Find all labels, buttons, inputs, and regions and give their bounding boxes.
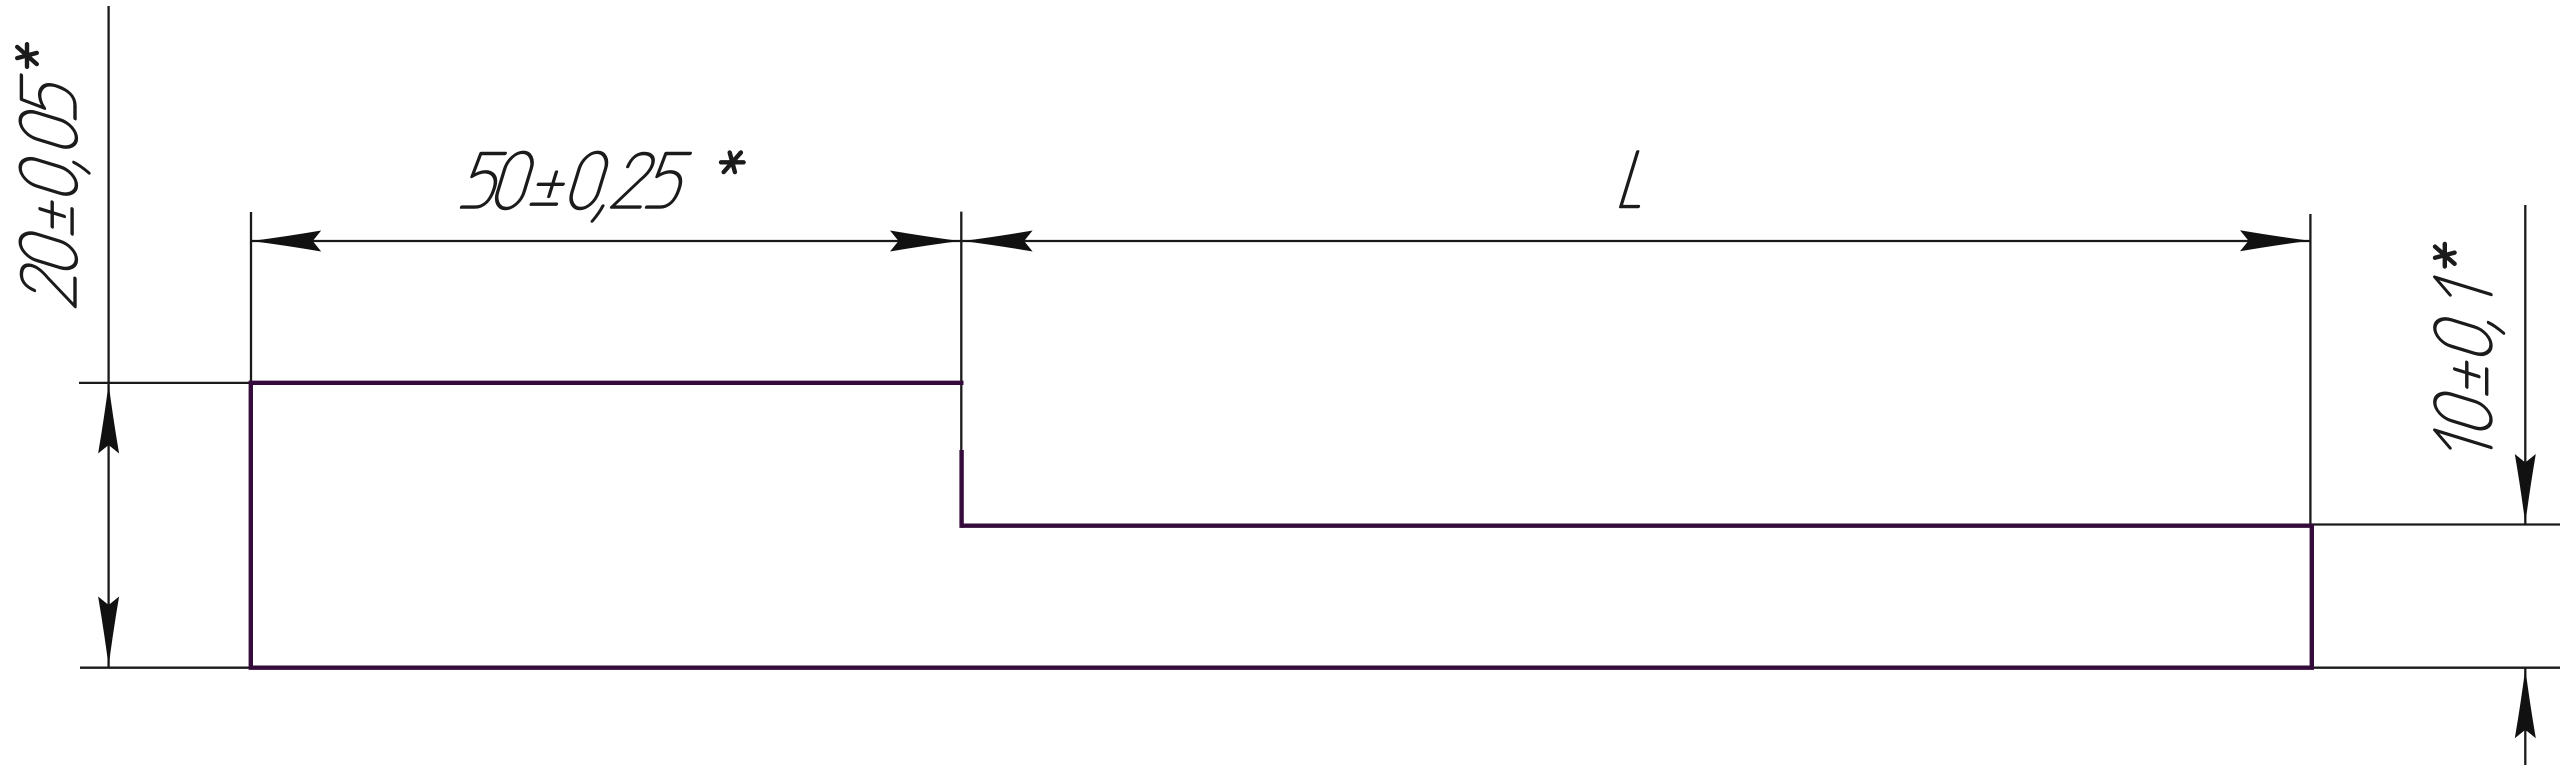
dimension line 10+-0,1 upper segment bbox=[2524, 205, 2526, 524]
arrowhead up at 10-dim bottom bbox=[2515, 668, 2536, 738]
arrowhead up at 20-dim top bbox=[98, 384, 119, 454]
extension line at step x=961 bbox=[960, 212, 962, 453]
dimension line 50 and L horizontal bbox=[251, 240, 2310, 242]
extension line 50-dim left (part top-left corner up) bbox=[250, 212, 252, 383]
text 20+-0,05* (left dimension label, rotated) bbox=[17, 44, 89, 311]
arrowhead down at 20-dim bottom bbox=[98, 597, 119, 667]
text L (dimension label) bbox=[1621, 152, 1655, 207]
part outline (stepped bar profile) bbox=[251, 383, 2312, 668]
arrowhead left at L-dim start bbox=[963, 231, 1033, 252]
dimension line 10+-0,1 lower segment bbox=[2524, 668, 2526, 765]
arrowhead right at L-dim end bbox=[2240, 230, 2310, 251]
dimension line 20+-0,05 vertical left bbox=[107, 6, 109, 668]
extension line right end of L bbox=[2309, 214, 2311, 525]
extension line bottom, right bbox=[2312, 667, 2560, 669]
extension line top of part, left bbox=[79, 382, 251, 384]
extension line shelf top, right bbox=[2310, 523, 2560, 525]
arrowhead left at 50-dim start bbox=[251, 231, 321, 252]
text 50+-0,25 * (top dimension label) bbox=[17, 44, 2503, 464]
asterisk after 50+-0,25 bbox=[721, 153, 744, 173]
arrowhead down at 10-dim top bbox=[2515, 454, 2536, 524]
text 10+-0,1* (right dimension label, rotated) bbox=[2435, 244, 2504, 464]
part step edge bbox=[959, 450, 963, 528]
extension line bottom of part, left bbox=[80, 667, 250, 669]
arrowhead right at 50-dim end bbox=[890, 231, 960, 252]
